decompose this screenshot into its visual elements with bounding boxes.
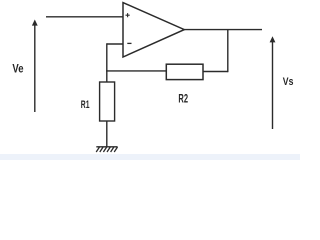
wire: inverting input (107, 43, 123, 45)
pin label + (126, 13, 130, 17)
wire: R2 right segment (203, 71, 228, 73)
wire: feedback vertical from output node (227, 30, 229, 73)
svg-text:R1: R1 (81, 99, 90, 111)
wire: output (184, 29, 262, 31)
op-amp U1 (123, 3, 184, 57)
wire: inverting node vertical (106, 43, 108, 82)
svg-text:Ve: Ve (12, 62, 23, 76)
bottom strip (0, 154, 300, 160)
ground (96, 147, 117, 152)
wire: non-inverting input (top) (46, 16, 123, 18)
wire: feedback left segment (106, 70, 166, 72)
pin label - (127, 42, 131, 44)
svg-text:Vs: Vs (283, 76, 294, 88)
arrow Vs (270, 36, 276, 129)
resistor R1 (100, 82, 115, 121)
svg-text:R2: R2 (178, 92, 188, 106)
wire: R1 to ground (106, 121, 108, 147)
arrow Ve (32, 20, 38, 113)
resistor R2 (166, 64, 203, 79)
